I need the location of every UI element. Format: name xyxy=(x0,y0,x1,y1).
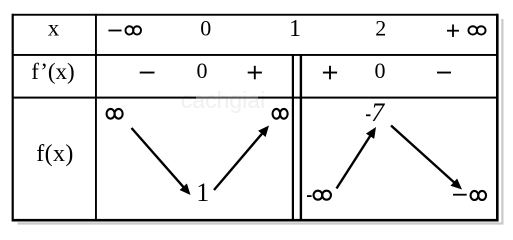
svg-text:0: 0 xyxy=(375,58,386,83)
svg-text:1: 1 xyxy=(289,16,301,42)
svg-text:0: 0 xyxy=(200,16,211,41)
svg-text:x: x xyxy=(48,16,60,41)
svg-text:f(x): f(x) xyxy=(36,141,74,167)
svg-text:cachgiai: cachgiai xyxy=(181,87,265,113)
svg-text:1: 1 xyxy=(196,178,209,207)
svg-text:7: 7 xyxy=(371,98,385,127)
svg-text:0: 0 xyxy=(197,58,208,83)
svg-text:f’(x): f’(x) xyxy=(31,59,74,84)
svg-text:2: 2 xyxy=(375,16,386,41)
